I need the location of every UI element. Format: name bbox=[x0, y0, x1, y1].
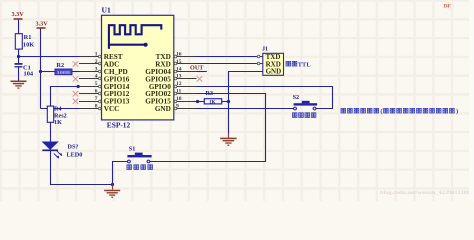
no-ERC X pin 2 bbox=[73, 61, 79, 67]
wire VCC rail to pin 8 bbox=[41, 108, 80, 110]
wire R2 to CH_PD pin bbox=[72, 71, 79, 73]
svg-text:DF: DF bbox=[444, 4, 452, 10]
svg-text:10K: 10K bbox=[23, 41, 34, 48]
wire GND pin9 to S2 left bbox=[197, 108, 294, 110]
right scroll band bbox=[469, 0, 474, 201]
svg-text:16: 16 bbox=[176, 51, 182, 57]
svg-text:6: 6 bbox=[95, 89, 98, 95]
svg-text:12: 12 bbox=[176, 81, 182, 87]
label chuankou TTL bbox=[286, 61, 311, 68]
node junction pin10/R3 bbox=[196, 100, 199, 103]
svg-text:11: 11 bbox=[176, 89, 181, 95]
capacitor C1 bbox=[15, 64, 34, 78]
svg-text:7: 7 bbox=[95, 96, 98, 102]
node junction LED/S1/ground bbox=[111, 183, 114, 186]
svg-text:ESP-12: ESP-12 bbox=[107, 121, 131, 130]
node junction rail/R2 bbox=[39, 70, 42, 73]
wire node to REST pin bbox=[19, 56, 80, 58]
svg-text:100R: 100R bbox=[57, 70, 72, 75]
svg-text:U1: U1 bbox=[102, 5, 111, 14]
svg-text:S2: S2 bbox=[293, 94, 300, 101]
ground (bottom left) bbox=[104, 185, 120, 198]
svg-text:1K: 1K bbox=[209, 100, 216, 105]
svg-text:1K: 1K bbox=[54, 119, 62, 126]
svg-text:9: 9 bbox=[176, 104, 179, 110]
switch S2 bbox=[293, 94, 318, 110]
svg-text:): ) bbox=[456, 108, 458, 115]
U1 right pin names bbox=[145, 53, 171, 113]
wire C1 to ground bbox=[18, 67, 20, 81]
svg-text:2: 2 bbox=[95, 59, 98, 65]
wire GPIO04 OUT stub bbox=[197, 71, 207, 73]
resistor R1 bbox=[15, 34, 34, 49]
svg-text:OUT: OUT bbox=[190, 65, 204, 72]
U1 right pin edge circles bbox=[174, 55, 177, 110]
no-ERC X pin 7 bbox=[73, 99, 79, 105]
wire pin10 to R3 bbox=[197, 101, 205, 103]
svg-text:3.3V: 3.3V bbox=[36, 21, 49, 28]
resistor R4 Res2 1K bbox=[47, 106, 66, 127]
J1 pin stubs and circles bbox=[257, 55, 263, 65]
svg-text:4: 4 bbox=[95, 74, 98, 80]
node junction R3/ground riser bbox=[227, 100, 230, 103]
svg-text:1: 1 bbox=[95, 51, 98, 57]
label chudian switch S1 bbox=[127, 165, 153, 170]
no-ERC X pin 13 bbox=[197, 76, 203, 82]
svg-text:R2: R2 bbox=[57, 62, 65, 69]
svg-text:5: 5 bbox=[95, 81, 98, 87]
power port 3.3V (second) bbox=[36, 21, 49, 109]
resistor R2 value 100R bbox=[55, 62, 72, 75]
ground (mid, under J1 GND riser) bbox=[220, 134, 236, 146]
U1 right pin numbers bbox=[176, 51, 182, 109]
U1 left pin stubs 1-8 bbox=[79, 57, 102, 109]
wire J1 GND to ground riser bbox=[229, 72, 263, 134]
wire RXD to J1 bbox=[197, 63, 258, 65]
svg-text:104: 104 bbox=[24, 71, 34, 78]
svg-text:blog.csdn.net/weixin_423981138: blog.csdn.net/weixin_4239811386 bbox=[380, 191, 471, 196]
svg-text:TTL: TTL bbox=[298, 61, 311, 68]
resistor R3 1K bbox=[204, 90, 221, 105]
svg-text:J1: J1 bbox=[262, 47, 268, 53]
no-ERC X pin 6 bbox=[73, 91, 79, 97]
label chudian switch S2 bbox=[292, 113, 316, 118]
svg-text:VCC: VCC bbox=[104, 105, 120, 113]
svg-text:13: 13 bbox=[176, 74, 182, 80]
wire S1 to GPIO02 riser bbox=[150, 94, 266, 162]
wire R4 to LED bbox=[50, 122, 52, 142]
LED DS? LED0 bbox=[42, 142, 82, 159]
svg-text:R1: R1 bbox=[24, 34, 32, 41]
U1 left pin names bbox=[104, 53, 130, 113]
wire R1 bottom to node bbox=[18, 49, 20, 63]
svg-text:3: 3 bbox=[95, 66, 98, 72]
U1 right pin stubs 16-9 bbox=[174, 57, 197, 109]
wire rail to R2 bbox=[41, 71, 56, 73]
svg-text:DS?: DS? bbox=[68, 143, 79, 150]
wire TXD to J1 bbox=[197, 56, 258, 58]
svg-text:R3: R3 bbox=[206, 90, 214, 97]
wire LED cathode to ground node bbox=[51, 150, 113, 184]
node junction pin5 bbox=[77, 85, 80, 88]
wire GPIO14 pin to R4 bbox=[51, 87, 79, 107]
svg-text:8: 8 bbox=[95, 104, 98, 110]
wire node up to S1 bbox=[113, 162, 129, 185]
svg-text:3.3V: 3.3V bbox=[12, 11, 25, 18]
node junction R1/C1/REST bbox=[17, 55, 20, 58]
svg-text:(: ( bbox=[380, 108, 382, 115]
svg-text:S1: S1 bbox=[129, 145, 136, 152]
connector J1 bbox=[262, 47, 284, 76]
wire R3 to ground riser bbox=[222, 101, 229, 103]
U1 left pin edge circles bbox=[99, 55, 102, 110]
svg-text:10: 10 bbox=[176, 96, 182, 102]
antenna art inside U1 bbox=[109, 25, 161, 49]
ground (under C1) bbox=[11, 81, 27, 88]
no-ERC X pin 4 bbox=[73, 76, 79, 82]
svg-text:GND: GND bbox=[155, 105, 171, 113]
IC U1 ESP-12 bbox=[102, 5, 174, 129]
svg-text:LED0: LED0 bbox=[67, 152, 83, 159]
switch S1 bbox=[127, 145, 151, 163]
wire GPIO0 to S2 loop bbox=[197, 87, 333, 109]
U1 left pin numbers bbox=[95, 51, 98, 109]
power port 3.3V (left) bbox=[12, 11, 25, 34]
svg-text:GND: GND bbox=[266, 68, 282, 76]
svg-text:15: 15 bbox=[176, 59, 182, 65]
svg-text:14: 14 bbox=[176, 66, 182, 72]
note text burn mode select bbox=[341, 108, 458, 115]
